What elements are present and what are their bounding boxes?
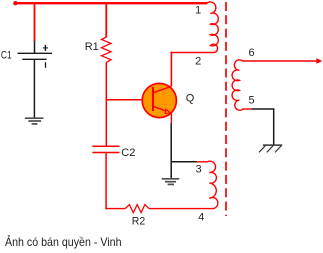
svg-text:3: 3 xyxy=(196,164,202,176)
svg-text:2: 2 xyxy=(195,56,201,68)
svg-text:1: 1 xyxy=(195,5,201,17)
svg-text:Q: Q xyxy=(186,93,195,105)
svg-text:5: 5 xyxy=(249,95,255,107)
svg-text:C2: C2 xyxy=(121,147,135,159)
svg-text:C1: C1 xyxy=(1,50,12,62)
svg-text:R1: R1 xyxy=(85,41,99,53)
svg-text:Ảnh có bán quyền - Vinh: Ảnh có bán quyền - Vinh xyxy=(5,234,122,249)
svg-text:R2: R2 xyxy=(132,216,145,228)
svg-text:6: 6 xyxy=(248,47,254,59)
svg-text:4: 4 xyxy=(198,212,204,224)
